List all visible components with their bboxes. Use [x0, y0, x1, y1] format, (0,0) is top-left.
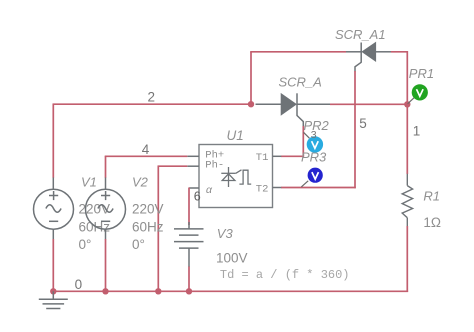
svg-text:220V: 220V	[132, 202, 164, 217]
svg-text:T1: T1	[256, 152, 269, 164]
svg-text:5: 5	[359, 116, 367, 131]
node junction V1 bottom	[50, 288, 56, 294]
thyristor SCR_A	[256, 93, 331, 126]
wire net5 vertical SCR_A1 gate to T2	[354, 71, 356, 188]
node junction Ph- bottom	[155, 288, 161, 294]
svg-text:1: 1	[413, 124, 421, 139]
wire net2 horizontal	[53, 103, 252, 105]
svg-text:4: 4	[142, 142, 150, 157]
node junction V3 bottom	[186, 288, 192, 294]
wire net4 horizontal	[105, 155, 188, 157]
thyristor SCR_A1	[346, 43, 391, 72]
svg-text:100V: 100V	[216, 251, 248, 266]
wire V1 bottom	[52, 239, 54, 291]
U1 inner pulse glyph	[239, 170, 251, 184]
U1 pin stub T2	[273, 187, 282, 189]
wire net0 Ph- horizontal	[158, 165, 188, 167]
U1 pin stub Ph+	[187, 155, 199, 157]
svg-text:U1: U1	[227, 128, 244, 143]
wire net1 from SCR_A1 cathode	[391, 51, 407, 53]
node junction V2 bottom	[102, 288, 108, 294]
resistor R1	[402, 174, 412, 227]
svg-text:3: 3	[311, 129, 317, 141]
svg-text:0°: 0°	[79, 237, 92, 252]
wire net4 vertical to V2	[105, 156, 107, 178]
svg-text:α: α	[206, 185, 213, 197]
svg-text:Td = a / (f * 360): Td = a / (f * 360)	[220, 268, 350, 282]
svg-text:V1: V1	[81, 174, 97, 189]
wire net1 down to R1	[406, 104, 408, 174]
wire net2 V1 top vertical	[52, 104, 54, 178]
wire net2 top horizontal	[250, 51, 346, 53]
svg-text:1Ω: 1Ω	[423, 215, 441, 230]
node junction net2	[248, 101, 254, 107]
probe PR2	[304, 132, 324, 152]
svg-text:V3: V3	[217, 226, 234, 241]
svg-text:0°: 0°	[132, 237, 145, 252]
svg-text:V2: V2	[132, 174, 149, 189]
svg-text:2: 2	[148, 90, 156, 105]
wire net5 horizontal T2	[281, 187, 356, 189]
wire net1 right riser	[406, 51, 408, 104]
U1 pin stub T1	[273, 155, 282, 157]
node junction net1	[404, 101, 410, 107]
battery V3	[174, 222, 204, 267]
svg-text:0: 0	[75, 277, 83, 292]
svg-text:T2: T2	[256, 183, 269, 195]
svg-text:PR1: PR1	[409, 66, 434, 81]
U1 inner thyristor glyph	[221, 167, 241, 187]
svg-text:60Hz: 60Hz	[132, 220, 164, 235]
wire net6 alpha to battery	[188, 188, 190, 226]
svg-text:PR3: PR3	[301, 149, 327, 164]
svg-text:R1: R1	[423, 189, 440, 204]
op-amp U1 trigger block box	[199, 145, 273, 208]
wire R1 bottom	[406, 226, 408, 292]
wire net2 riser	[250, 52, 252, 105]
U1 pin stub alpha	[189, 187, 199, 189]
wire V2 bottom	[105, 239, 107, 291]
ground	[39, 291, 68, 308]
svg-text:Ph-: Ph-	[205, 160, 224, 172]
wire net0 bottom rail	[53, 290, 408, 292]
wire V3 bottom	[188, 267, 190, 292]
svg-text:6: 6	[194, 190, 201, 204]
probe PR1	[408, 84, 428, 104]
wire net0 Ph- vertical	[157, 166, 159, 291]
wire net3 vertical gate to T1	[302, 126, 304, 156]
source V2	[86, 178, 126, 240]
source V1	[34, 178, 74, 240]
probe PR3	[301, 168, 323, 187]
wire net3 horizontal	[281, 155, 304, 157]
svg-text:SCR_A: SCR_A	[279, 75, 322, 90]
U1 pin stub Ph-	[187, 165, 199, 167]
svg-text:SCR_A1: SCR_A1	[335, 27, 386, 42]
wire net1 horizontal	[330, 103, 407, 105]
